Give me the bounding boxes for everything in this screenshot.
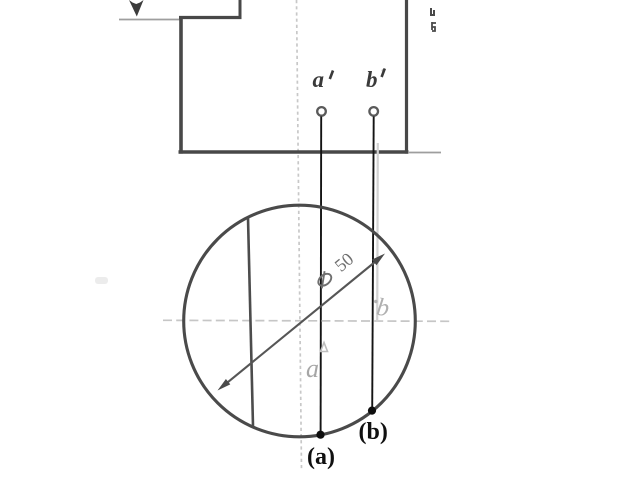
svg-text:a: a	[313, 67, 325, 92]
svg-text:(a): (a)	[307, 444, 335, 470]
svg-text:b: b	[366, 67, 378, 92]
svg-text:a: a	[306, 354, 319, 383]
svg-text:(b): (b)	[359, 419, 388, 445]
